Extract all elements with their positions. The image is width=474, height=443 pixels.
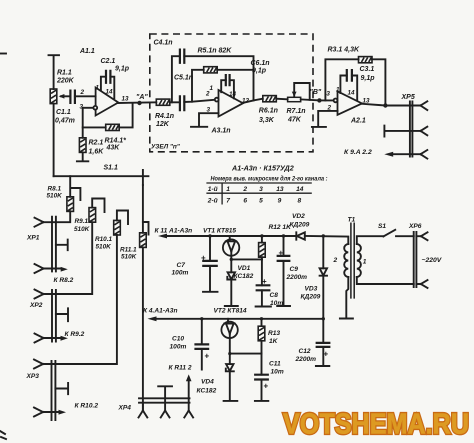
svg-text:3: 3 (207, 107, 211, 114)
svg-text:R13: R13 (268, 330, 280, 337)
svg-text:C2.1: C2.1 (101, 58, 116, 65)
svg-text:+: + (264, 382, 269, 391)
svg-text:1K: 1K (269, 338, 279, 345)
svg-text:VOTSHEMA.RU: VOTSHEMA.RU (283, 409, 469, 441)
svg-text:C5.1n: C5.1n (174, 75, 193, 82)
svg-text:510K: 510K (121, 253, 137, 260)
svg-text:XP5: XP5 (401, 94, 415, 101)
svg-text:C12: C12 (299, 348, 311, 355)
svg-text:A3.1n: A3.1n (211, 128, 231, 135)
svg-text:1: 1 (210, 85, 214, 92)
svg-text:9,1p: 9,1p (252, 68, 267, 75)
svg-text:К R8.2: К R8.2 (54, 277, 74, 284)
svg-text:A1-A3n · К157УД2: A1-A3n · К157УД2 (231, 164, 294, 173)
svg-text:R7.1n: R7.1n (287, 108, 306, 115)
svg-text:VT2 КТ814: VT2 КТ814 (214, 308, 247, 315)
svg-text:К R9.2: К R9.2 (65, 331, 85, 338)
svg-text:0,47m: 0,47m (55, 118, 75, 125)
svg-text:R4.1n: R4.1n (155, 113, 174, 120)
svg-text:XP2: XP2 (29, 302, 43, 309)
svg-text:A2.1: A2.1 (350, 118, 366, 125)
svg-text:+: + (279, 249, 284, 258)
svg-text:КД209: КД209 (301, 294, 321, 301)
svg-text:К 4.A1-A3n: К 4.A1-A3n (143, 308, 177, 315)
svg-text:10m: 10m (270, 300, 283, 307)
svg-text:1,6K: 1,6K (89, 149, 105, 156)
svg-text:510K: 510K (74, 226, 90, 233)
svg-text:3: 3 (259, 186, 263, 193)
svg-text:C4.1n: C4.1n (154, 40, 173, 47)
svg-text:47K: 47K (287, 117, 302, 124)
svg-text:XP6: XP6 (408, 223, 422, 230)
svg-text:220K: 220K (56, 78, 75, 85)
svg-text:510K: 510K (96, 243, 112, 250)
svg-text:КД209: КД209 (290, 222, 310, 229)
svg-text:VT1 КТ815: VT1 КТ815 (203, 227, 236, 234)
svg-text:C3.1: C3.1 (360, 66, 375, 73)
svg-text:VD2: VD2 (292, 213, 305, 220)
svg-text:1: 1 (336, 86, 340, 93)
svg-text:14: 14 (106, 89, 114, 96)
svg-text:3,3K: 3,3K (259, 117, 275, 124)
svg-text:R6.1n: R6.1n (259, 108, 278, 115)
svg-text:R10.1: R10.1 (95, 236, 112, 243)
svg-text:510K: 510K (47, 192, 63, 199)
svg-text:T1: T1 (348, 217, 356, 224)
svg-text:C10: C10 (172, 336, 184, 343)
svg-text:13: 13 (122, 96, 130, 103)
svg-text:6: 6 (243, 198, 247, 205)
svg-text:C7: C7 (177, 262, 186, 269)
svg-text:1: 1 (226, 186, 230, 193)
svg-text:К R11 2: К R11 2 (169, 364, 192, 371)
svg-text:12K: 12K (156, 121, 170, 128)
svg-text:R3.1 4,3K: R3.1 4,3K (328, 47, 360, 54)
svg-text:2: 2 (242, 186, 247, 193)
svg-text:C8: C8 (270, 292, 279, 299)
svg-text:+: + (262, 277, 267, 286)
svg-text:КС182: КС182 (234, 273, 254, 280)
svg-text:C6.1n: C6.1n (251, 60, 270, 67)
svg-text:VD1: VD1 (238, 265, 251, 272)
svg-text:2-й: 2-й (207, 197, 218, 205)
svg-text:1: 1 (96, 85, 100, 92)
svg-text:13: 13 (242, 98, 250, 105)
svg-text:К R10.2: К R10.2 (75, 403, 99, 410)
svg-text:К 11 A1-A3n: К 11 A1-A3n (155, 227, 193, 234)
svg-text:2: 2 (327, 105, 332, 112)
svg-text:14: 14 (348, 90, 356, 97)
svg-text:7: 7 (226, 198, 230, 205)
svg-text:9,1p: 9,1p (115, 66, 130, 73)
svg-text:13: 13 (276, 186, 284, 193)
svg-text:~220V: ~220V (422, 257, 443, 264)
svg-text:13: 13 (363, 98, 371, 105)
svg-text:VD4: VD4 (201, 379, 214, 386)
svg-text:XP3: XP3 (26, 373, 40, 380)
svg-text:S1: S1 (378, 223, 386, 230)
svg-text:1: 1 (363, 259, 367, 266)
svg-text:100m: 100m (172, 270, 189, 277)
svg-text:+: + (201, 254, 206, 263)
svg-text:3: 3 (80, 104, 84, 111)
svg-text:УЗЕЛ "п": УЗЕЛ "п" (151, 144, 181, 151)
svg-text:S1.1: S1.1 (104, 165, 119, 172)
svg-text:2200m: 2200m (295, 356, 317, 363)
svg-text:КС182: КС182 (197, 388, 217, 395)
svg-text:14: 14 (229, 91, 237, 98)
svg-text:9: 9 (278, 198, 282, 205)
svg-text:C11: C11 (269, 361, 281, 368)
svg-text:5: 5 (259, 198, 263, 205)
svg-text:10m: 10m (271, 368, 284, 375)
svg-text:XP1: XP1 (26, 234, 40, 241)
svg-text:A1.1: A1.1 (79, 48, 95, 55)
svg-text:1-й: 1-й (208, 185, 218, 193)
svg-text:C9: C9 (290, 266, 299, 273)
svg-text:R1.1: R1.1 (57, 70, 72, 77)
svg-text:К 9.A 2.2: К 9.A 2.2 (344, 149, 372, 156)
svg-text:14: 14 (296, 186, 304, 193)
svg-text:R8.1: R8.1 (48, 185, 62, 192)
svg-text:+: + (324, 350, 329, 359)
svg-text:9,1p: 9,1p (361, 75, 376, 82)
svg-text:R14.1*: R14.1* (105, 138, 127, 145)
svg-text:Номера выв. микросхем для 2-го: Номера выв. микросхем для 2-го канала : (211, 175, 328, 183)
svg-text:+: + (205, 352, 210, 361)
svg-text:"B": "B" (310, 89, 322, 96)
svg-text:3: 3 (326, 91, 330, 98)
svg-text:2: 2 (333, 257, 338, 264)
svg-text:R9.1: R9.1 (75, 218, 89, 225)
svg-text:C1.1: C1.1 (56, 109, 71, 116)
svg-text:R5.1n 82K: R5.1n 82K (198, 48, 233, 55)
svg-text:2200m: 2200m (286, 274, 308, 281)
svg-text:R2.1: R2.1 (89, 140, 104, 147)
svg-text:43K: 43K (106, 145, 121, 152)
svg-text:VD3: VD3 (305, 286, 318, 293)
svg-text:8: 8 (298, 198, 302, 205)
svg-text:2: 2 (80, 89, 85, 96)
svg-text:"A": "A" (136, 94, 148, 101)
svg-text:XP4: XP4 (118, 404, 132, 411)
svg-text:100m: 100m (170, 343, 187, 350)
